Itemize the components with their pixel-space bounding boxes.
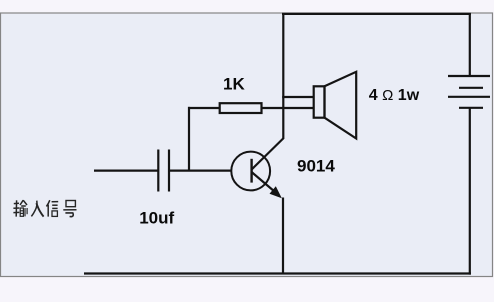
wire: collector branch vertical	[282, 13, 284, 139]
capacitor C1	[158, 150, 169, 192]
wire: resistor to speaker bottom terminal	[261, 107, 314, 109]
char 输	[13, 200, 27, 216]
wire: right rail upper (top rail down to battery)	[469, 13, 471, 76]
char 入	[31, 201, 43, 217]
transistor Q1 circle	[231, 152, 270, 191]
svg-text:9014: 9014	[297, 156, 335, 175]
wire: junction vertical (resistor to base line)	[188, 107, 190, 171]
char 信	[46, 200, 58, 216]
svg-text:1K: 1K	[223, 75, 245, 94]
wire: top rail from collector node to battery positive	[282, 13, 471, 15]
wire: emitter to bottom rail	[282, 198, 284, 274]
svg-text:4 Ω 1w: 4 Ω 1w	[369, 87, 420, 104]
char 号	[63, 201, 76, 217]
wire: base junction to resistor left	[188, 107, 220, 109]
wire: input stub to capacitor	[94, 170, 158, 172]
wire: speaker top terminal	[282, 96, 314, 98]
wire: right rail lower (battery to bottom rail)	[469, 108, 471, 275]
speaker LS1	[314, 72, 357, 139]
label: 输入信号 (input signal) drawn as strokes	[13, 200, 76, 216]
transistor Q1 collector lead	[252, 138, 284, 169]
transistor Q1 base bar	[250, 159, 252, 183]
wire: bottom rail	[84, 272, 471, 274]
battery B1	[448, 76, 490, 108]
wire: capacitor to base	[169, 170, 232, 172]
transistor Q1 emitter lead with arrow	[252, 172, 278, 195]
svg-text:10uf: 10uf	[139, 209, 174, 228]
resistor R1	[220, 103, 262, 113]
